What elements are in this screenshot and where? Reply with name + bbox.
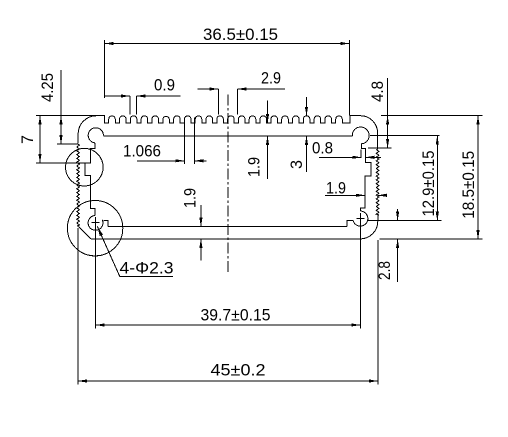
svg-text:2.8: 2.8 [375, 261, 394, 280]
profile bottom-left chamfer [78, 226, 91, 239]
svg-text:4.8: 4.8 [368, 81, 387, 102]
extension line inner ceiling right [370, 135, 440, 137]
svg-text:39.7±0.15: 39.7±0.15 [201, 306, 271, 325]
dimension 1.9 right wall thickness [325, 194, 365, 196]
lower-left screw channel curl [88, 216, 103, 231]
extension line x=349.4 top [348, 40, 350, 115]
top-right screw channel curl [352, 127, 369, 144]
extension line right boss ledge [368, 220, 442, 222]
dimension 3 top wall thickness [306, 97, 308, 116]
extension line x=77.9 bottom [77, 228, 79, 385]
dimension 45±0.2 bottom [78, 380, 378, 382]
svg-text:12.9±0.15: 12.9±0.15 [419, 151, 438, 217]
lower-left boss circle [67, 201, 122, 256]
lower-right boss floor step [347, 221, 353, 227]
svg-text:1.9: 1.9 [245, 157, 264, 177]
svg-text:1.066: 1.066 [123, 142, 161, 161]
extension line y=162.8 left [36, 162, 85, 164]
dimension 1.9 floor thickness [200, 205, 202, 227]
profile top-left outer corner arc [78, 116, 96, 144]
lower-right screw channel spiral [353, 211, 368, 226]
lower-right boss center mark [356, 217, 364, 219]
extension line bottom surface right [380, 238, 483, 240]
profile top-right outer corner arc [361, 116, 378, 150]
svg-text:4.25: 4.25 [38, 73, 57, 102]
extension line x=377.9 bottom [377, 240, 379, 385]
vertical dash-dot centerline [227, 95, 229, 275]
profile left outer serrated edge [77, 143, 80, 226]
dimension 2.8 right [397, 209, 399, 221]
svg-text:3: 3 [287, 160, 306, 169]
profile bottom outer surface [91, 238, 361, 240]
profile inner ceiling line [104, 135, 353, 137]
dimension 4.8 right [387, 78, 389, 148]
svg-text:45±0.2: 45±0.2 [211, 361, 266, 380]
right wall inner edge with steps [361, 144, 371, 212]
dimension 4.25 left [60, 70, 62, 144]
svg-text:36.5±0.15: 36.5±0.15 [203, 25, 278, 44]
top-left screw channel curl [88, 128, 103, 143]
left wall inner edge with notches [85, 143, 95, 216]
extension line x=360.3 bottom [359, 213, 361, 329]
extension line x=95.7 bottom [95, 217, 97, 329]
floor top surface [108, 226, 347, 228]
dimension 0.8 right channel slot [319, 156, 362, 158]
lower-left boss floor tab [103, 221, 108, 227]
upper-left boss circle [66, 148, 104, 186]
svg-text:4-Φ2.3: 4-Φ2.3 [120, 259, 174, 278]
svg-text:0.9: 0.9 [154, 76, 175, 95]
svg-text:2.9: 2.9 [261, 69, 281, 88]
dimension 1.066 fin groove [137, 160, 184, 162]
extension line top-of-profile left [36, 115, 97, 117]
svg-text:1.9: 1.9 [326, 179, 346, 198]
dimension 0.9 fin [105, 95, 130, 97]
leader 4-Φ2.3 screw holes [97, 226, 173, 276]
dimension 2.9 fin [198, 88, 219, 90]
dimension 7 left [39, 116, 41, 163]
dimension 36.5±0.15 top [105, 43, 350, 45]
svg-text:1.9: 1.9 [181, 188, 200, 208]
dimension 39.7±0.15 bottom [96, 324, 361, 326]
svg-text:7: 7 [18, 135, 37, 144]
dimension 12.9±0.15 right [436, 136, 438, 221]
svg-text:18.5±0.15: 18.5±0.15 [459, 151, 478, 219]
extension line top-of-profile right [381, 115, 483, 117]
extension line x=104.7 top [104, 40, 106, 98]
profile bottom-right outer corner arc [360, 215, 378, 239]
svg-text:0.8: 0.8 [312, 139, 333, 158]
extension line y=144 left [57, 143, 78, 145]
lower-left boss center mark [92, 222, 100, 224]
profile top wall outer edge with cooling fins [97, 116, 361, 124]
dimension 1.9 wall under fin valley [267, 101, 269, 124]
dimension 18.5±0.15 right [477, 116, 479, 239]
profile right outer serrated edge [376, 150, 379, 216]
extension line right channel step [368, 147, 392, 149]
